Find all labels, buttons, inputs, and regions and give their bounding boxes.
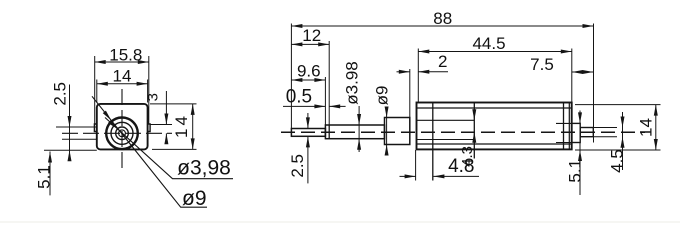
dimension 5.1 (side view right) [578,111,582,196]
faint bottom rule [0,221,680,223]
svg-text:2.5: 2.5 [288,154,307,178]
dimension 3 (shaft offset, right of front view) [150,91,172,144]
middle circle [111,122,133,144]
dimension 4.8 [400,150,480,181]
svg-text:2.5: 2.5 [51,82,70,106]
svg-text:2: 2 [438,52,447,71]
gearbox inner line (upper) [417,119,475,121]
dimension 88 (overall length) [291,24,593,143]
dimension 4.5 (rotated) [621,112,625,170]
dimension 4.3 (rotated) [472,109,476,143]
rear shaft extension lines [593,128,617,137]
motor body outline [417,103,572,150]
gearbox inner line (lower) [417,139,475,141]
svg-text:ø3.98: ø3.98 [343,61,362,104]
svg-text:5.1: 5.1 [35,165,54,189]
output shaft (left) [291,129,325,137]
svg-text:14: 14 [172,113,191,138]
rear shaft stub [580,128,593,137]
body inner bottom line [417,143,572,145]
dimension 2 [397,69,449,118]
washer line (0.5) [328,125,330,139]
dimension 0.5 [283,104,346,108]
body inner top line [417,107,572,109]
gearbox seam 1 [432,103,434,181]
dimension 44.5 [418,49,572,103]
svg-text:14: 14 [113,67,132,86]
leader line ø3.98 (front view) [105,118,233,179]
dimension 14 (front view height, right) [150,104,197,149]
horizontal centerline (front view) [62,132,172,134]
svg-text:ø9: ø9 [373,86,392,106]
bearing collar ø3.98 section [325,125,384,139]
dimension 12 [291,41,329,125]
boss ø9 section [385,118,410,145]
svg-text:0.5: 0.5 [286,87,312,108]
motor end seam [563,103,565,150]
dimension 2.5 (side view) [306,113,310,183]
dimension 2.5 (front view left) [56,85,97,162]
dimension 9.6 [291,77,325,125]
dimension 7.5 [572,70,594,74]
shaft circle (innermost) [119,130,126,137]
svg-text:7.5: 7.5 [530,55,554,74]
boss circle ø9 (outer, bold) [106,118,138,150]
dimension ø9 (side view, rotated) [385,107,389,156]
dimension 5.1 (front view lower left) [44,150,97,195]
bearing pocket lines (right end) [556,123,572,142]
svg-text:4.3: 4.3 [459,146,476,167]
dimension 14 (side view right) [575,105,661,150]
right side tab [148,124,151,132]
svg-text:14: 14 [637,118,656,137]
svg-text:44.5: 44.5 [472,34,505,53]
svg-text:88: 88 [433,9,452,28]
svg-text:ø3,98: ø3,98 [177,157,231,180]
motor end cap double line [568,103,570,150]
gearbox/motor seam 2 [473,103,475,159]
dimension 15.8 (top overall width) [95,56,149,124]
svg-text:12: 12 [302,26,321,45]
svg-text:4.5: 4.5 [608,149,627,173]
svg-text:9.6: 9.6 [297,62,321,81]
bearing circle ø3.98 [116,127,129,140]
rear bearing collar [572,123,581,142]
svg-text:ø9: ø9 [182,187,207,210]
svg-text:3: 3 [145,93,162,101]
svg-text:5.1: 5.1 [565,159,584,183]
svg-text:15.8: 15.8 [109,46,142,65]
dimension 14 (top body width) [97,80,148,103]
body outline (front view square, rounded corners) [97,104,148,149]
leader line ø9 (front view) [92,96,207,207]
side view centerline [281,131,645,133]
left side tab [94,124,96,132]
dimension ø3.98 (side view, rotated) [357,106,361,152]
vertical centerline (front view) [121,89,123,173]
